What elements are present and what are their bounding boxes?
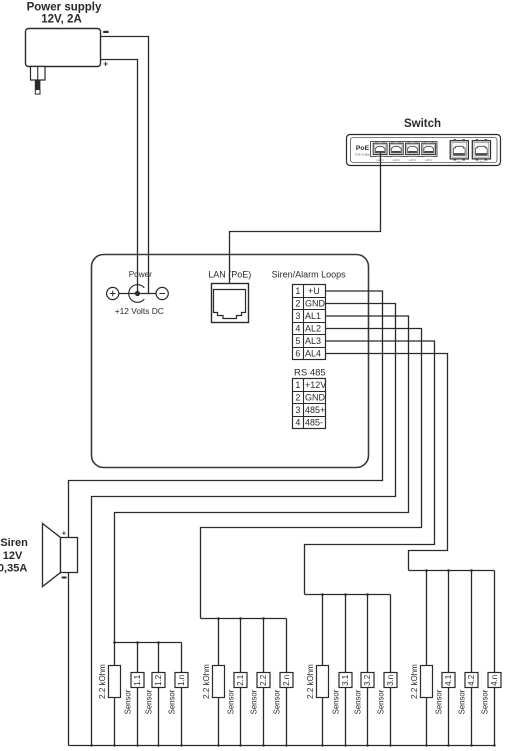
junction loop 1 rail / sensor 1.1 bbox=[136, 641, 139, 644]
wire rail to sensor 4.n bbox=[494, 571, 496, 673]
wire rail to sensor 1.n bbox=[181, 643, 183, 673]
wire sensor 4.n to common bus bbox=[494, 688, 496, 746]
loop 3 feed rail bbox=[305, 594, 391, 596]
svg-text:3.n: 3.n bbox=[386, 675, 395, 686]
junction resistor R3 / bus bbox=[321, 744, 323, 746]
wire AL3 pin5 to loop 3 rail bbox=[305, 341, 435, 595]
resistor R2 2.2 kOhm bbox=[213, 666, 225, 698]
power supply PSU1 plug bbox=[31, 67, 46, 81]
wire rail to sensor 4.1 bbox=[448, 571, 450, 673]
wire rail to sensor 4.2 bbox=[471, 571, 473, 673]
switch SW1 body bbox=[347, 135, 501, 166]
junction sensor 1.n / bus bbox=[180, 744, 182, 746]
svg-text:Sensor: Sensor bbox=[376, 689, 385, 714]
wire sensor 1.1 to common bus bbox=[137, 688, 139, 746]
junction sensor 4.1 / bus bbox=[447, 744, 449, 746]
junction GND wire / bus bbox=[90, 744, 92, 746]
wire rail to sensor 1.2 bbox=[158, 643, 160, 673]
svg-text:Siren: Siren bbox=[0, 537, 28, 549]
svg-text:Sensor: Sensor bbox=[353, 689, 362, 714]
svg-text:Sensor: Sensor bbox=[272, 689, 281, 714]
svg-text:Sensor: Sensor bbox=[123, 689, 132, 714]
svg-text:1: 1 bbox=[295, 286, 300, 296]
svg-text:LAN (PoE): LAN (PoE) bbox=[208, 270, 251, 280]
wire AL2 pin4 to loop 2 rail bbox=[201, 329, 422, 619]
sensor 2.n box bbox=[280, 673, 293, 688]
junction loop 2 rail / sensor 2.2 bbox=[262, 617, 265, 620]
svg-text:AL2: AL2 bbox=[305, 324, 321, 334]
svg-text:Sensor: Sensor bbox=[226, 689, 235, 714]
wire GND pin2 to common bus bbox=[92, 304, 396, 746]
svg-text:Sensor: Sensor bbox=[457, 689, 466, 714]
svg-text:2.2 kOhm: 2.2 kOhm bbox=[306, 664, 315, 699]
svg-text:2.n: 2.n bbox=[282, 675, 291, 686]
junction loop 3 rail / sensor 3.2 bbox=[366, 593, 369, 596]
svg-text:Sensor: Sensor bbox=[434, 689, 443, 714]
wire rail to sensor 3.2 bbox=[367, 595, 369, 673]
wire sensor 1.2 to common bus bbox=[158, 688, 160, 746]
wire PSU minus to power jack barrel bbox=[101, 37, 149, 294]
wire sensor 3.n to common bus bbox=[390, 688, 392, 746]
switch PoE port 4 bbox=[422, 141, 436, 156]
label minus terminal bbox=[103, 31, 108, 33]
wire PSU plus to power jack center pin bbox=[101, 60, 138, 294]
terminal block TB1 siren/alarm loops grid bbox=[293, 285, 326, 360]
sensor 2.2 box bbox=[257, 673, 270, 688]
junction sensor 4.n / bus bbox=[493, 744, 495, 746]
svg-text:4: 4 bbox=[295, 418, 300, 428]
wire rail to sensor 3.1 bbox=[345, 595, 347, 673]
terminal block TB2 RS485 grid bbox=[293, 379, 326, 429]
svg-text:Sensor: Sensor bbox=[167, 689, 176, 714]
svg-text:Power supply: Power supply bbox=[27, 2, 102, 14]
svg-text:RS 485: RS 485 bbox=[294, 368, 326, 379]
svg-text:12V, 2A: 12V, 2A bbox=[41, 14, 82, 26]
switch uplink port 6 bbox=[472, 139, 490, 160]
wire sensor 3.1 to common bus bbox=[345, 688, 347, 746]
junction sensor 4.2 / bus bbox=[470, 744, 472, 746]
svg-text:Sensor: Sensor bbox=[331, 689, 340, 714]
junction sensor 1.1 / bus bbox=[136, 744, 138, 746]
junction resistor R1 / bus bbox=[113, 744, 115, 746]
wire plus contact to center pin bbox=[119, 293, 138, 295]
wire switch port1 to LAN jack bbox=[230, 153, 381, 290]
svg-text:2: 2 bbox=[295, 393, 300, 403]
svg-text:2: 2 bbox=[295, 299, 300, 309]
sensor 1.2 box bbox=[152, 673, 165, 688]
svg-text:GND: GND bbox=[305, 299, 326, 309]
svg-text:0,35A: 0,35A bbox=[0, 563, 27, 575]
wire siren minus to common bus bbox=[68, 573, 70, 746]
power supply PSU1 body bbox=[26, 29, 101, 67]
svg-text:3: 3 bbox=[295, 311, 300, 321]
wire resistor R3 to common bus bbox=[322, 698, 324, 746]
svg-text:2.2 kOhm: 2.2 kOhm bbox=[410, 664, 419, 699]
resistor R3 2.2 kOhm bbox=[317, 666, 329, 698]
svg-text:PoE 2x8ub: PoE 2x8ub bbox=[355, 153, 370, 157]
switch PoE port group frame bbox=[371, 142, 438, 157]
junction sensor 2.n / bus bbox=[285, 744, 287, 746]
sensor 4.2 box bbox=[465, 673, 478, 688]
controller U1 enclosure bbox=[92, 255, 369, 468]
wire AL1 pin3 to loop 1 rail bbox=[115, 316, 409, 643]
junction loop 1 rail / sensor 1.2 bbox=[157, 641, 160, 644]
svg-text:1.2: 1.2 bbox=[154, 674, 163, 686]
svg-text:LAN 3: LAN 3 bbox=[409, 158, 417, 162]
sensor 3.1 box bbox=[339, 673, 352, 688]
siren minus label bbox=[62, 577, 67, 579]
loop 4 feed rail bbox=[409, 570, 495, 572]
wire +U pin1 to siren plus bbox=[69, 291, 383, 538]
wire resistor R4 to common bus bbox=[426, 698, 428, 746]
svg-text:AL1: AL1 bbox=[305, 311, 321, 321]
sensor 3.2 box bbox=[361, 673, 374, 688]
switch PoE port 3 bbox=[406, 141, 420, 156]
svg-text:UP 2: UP 2 bbox=[479, 160, 485, 164]
wire rail to sensor 2.n bbox=[286, 619, 288, 673]
junction loop 3 rail / sensor 3.1 bbox=[344, 593, 347, 596]
switch PoE port 1 bbox=[373, 141, 387, 156]
svg-text:3: 3 bbox=[295, 405, 300, 415]
svg-text:485+: 485+ bbox=[305, 405, 325, 415]
wire sensor 2.2 to common bus bbox=[263, 688, 265, 746]
svg-text:+U: +U bbox=[308, 286, 320, 296]
wire center pin to minus contact bbox=[140, 293, 156, 295]
wire sensor 4.1 to common bus bbox=[448, 688, 450, 746]
svg-text:12V: 12V bbox=[3, 550, 23, 562]
resistor R4 2.2 kOhm bbox=[421, 666, 433, 698]
loop 1 feed rail bbox=[115, 642, 182, 644]
svg-text:3.1: 3.1 bbox=[341, 674, 350, 686]
wire rail to sensor 1.1 bbox=[137, 643, 139, 673]
svg-text:4.n: 4.n bbox=[490, 675, 499, 686]
svg-text:Sensor: Sensor bbox=[144, 689, 153, 714]
wire resistor R1 to common bus bbox=[114, 698, 116, 746]
LAN RJ45 jack J1 bbox=[212, 284, 249, 323]
svg-text:4.1: 4.1 bbox=[444, 674, 453, 686]
wire sensor 2.1 to common bus bbox=[240, 688, 242, 746]
wire sensor 3.2 to common bus bbox=[367, 688, 369, 746]
junction sensor 3.2 / bus bbox=[366, 744, 368, 746]
wire rail to sensor 2.1 bbox=[240, 619, 242, 673]
loop 2 feed rail bbox=[201, 618, 287, 620]
resistor R1 2.2 kOhm bbox=[109, 666, 121, 698]
wire rail to resistor R1 bbox=[114, 643, 116, 666]
svg-text:Power: Power bbox=[129, 270, 152, 279]
svg-text:Switch: Switch bbox=[404, 118, 441, 130]
junction loop 3 rail / resistor bbox=[321, 593, 324, 596]
svg-text:2.2: 2.2 bbox=[259, 674, 268, 686]
svg-text:PoE: PoE bbox=[356, 145, 370, 152]
junction sensor 3.n / bus bbox=[389, 744, 391, 746]
common ground bus bbox=[69, 745, 495, 747]
junction loop 1 rail / resistor bbox=[113, 641, 116, 644]
wire AL4 pin6 to loop 4 rail bbox=[326, 354, 448, 571]
svg-text:AL4: AL4 bbox=[305, 349, 321, 359]
junction resistor R4 / bus bbox=[425, 744, 427, 746]
wire rail to resistor R3 bbox=[322, 595, 324, 666]
svg-text:+: + bbox=[62, 528, 67, 537]
junction loop 4 rail / sensor 4.1 bbox=[447, 569, 450, 572]
power jack plus contact bbox=[107, 287, 119, 299]
svg-text:+12V: +12V bbox=[305, 380, 326, 390]
svg-text:Siren/Alarm Loops: Siren/Alarm Loops bbox=[272, 269, 347, 279]
svg-text:1.n: 1.n bbox=[177, 675, 186, 686]
svg-text:+12 Volts DC: +12 Volts DC bbox=[115, 306, 164, 316]
svg-text:6: 6 bbox=[295, 349, 300, 359]
sensor 4.n box bbox=[488, 673, 501, 688]
sensor 1.n box bbox=[175, 673, 188, 688]
power jack barrel arc bbox=[129, 285, 145, 303]
wire rail to resistor R2 bbox=[218, 619, 220, 666]
wire sensor 4.2 to common bus bbox=[471, 688, 473, 746]
junction loop 4 rail / sensor 4.2 bbox=[470, 569, 473, 572]
siren LS1 driver bbox=[61, 538, 78, 573]
sensor 3.n box bbox=[384, 673, 397, 688]
sensor 1.1 box bbox=[131, 673, 144, 688]
wire sensor 1.n to common bus bbox=[181, 688, 183, 746]
junction sensor 2.1 / bus bbox=[239, 744, 241, 746]
svg-text:LAN 2: LAN 2 bbox=[393, 158, 401, 162]
svg-text:3.2: 3.2 bbox=[363, 674, 372, 686]
svg-text:5: 5 bbox=[295, 336, 300, 346]
power jack minus contact bbox=[156, 287, 168, 299]
wire resistor R2 to common bus bbox=[218, 698, 220, 746]
switch uplink port 5 bbox=[450, 139, 468, 160]
junction sensor 3.1 / bus bbox=[344, 744, 346, 746]
svg-text:UP 1: UP 1 bbox=[456, 160, 462, 164]
svg-text:2.2 kOhm: 2.2 kOhm bbox=[98, 664, 107, 699]
junction sensor 2.2 / bus bbox=[262, 744, 264, 746]
svg-text:1.1: 1.1 bbox=[133, 674, 142, 686]
svg-text:LAN 4: LAN 4 bbox=[425, 158, 433, 162]
svg-text:Sensor: Sensor bbox=[249, 689, 258, 714]
wire rail to sensor 2.2 bbox=[263, 619, 265, 673]
svg-text:4: 4 bbox=[295, 324, 300, 334]
power jack center pin bbox=[135, 291, 140, 296]
wire rail to sensor 3.n bbox=[390, 595, 392, 673]
svg-text:2.1: 2.1 bbox=[236, 674, 245, 686]
svg-text:2.2 kOhm: 2.2 kOhm bbox=[202, 664, 211, 699]
junction sensor 1.2 / bus bbox=[157, 744, 159, 746]
wire rail to resistor R4 bbox=[426, 571, 428, 666]
junction loop 2 rail / sensor 2.1 bbox=[239, 617, 242, 620]
svg-text:4.2: 4.2 bbox=[467, 674, 476, 686]
junction resistor R2 / bus bbox=[217, 744, 219, 746]
svg-text:485-: 485- bbox=[305, 418, 323, 428]
svg-text:GND: GND bbox=[305, 393, 326, 403]
junction loop 4 rail / resistor bbox=[425, 569, 428, 572]
svg-text:AL3: AL3 bbox=[305, 336, 321, 346]
sensor 4.1 box bbox=[442, 673, 455, 688]
svg-text:Sensor: Sensor bbox=[480, 689, 489, 714]
junction loop 2 rail / resistor bbox=[217, 617, 220, 620]
switch PoE port 2 bbox=[389, 141, 403, 156]
wire sensor 2.n to common bus bbox=[286, 688, 288, 746]
siren LS1 horn bbox=[43, 524, 61, 587]
sensor 2.1 box bbox=[234, 673, 247, 688]
svg-text:1: 1 bbox=[295, 380, 300, 390]
